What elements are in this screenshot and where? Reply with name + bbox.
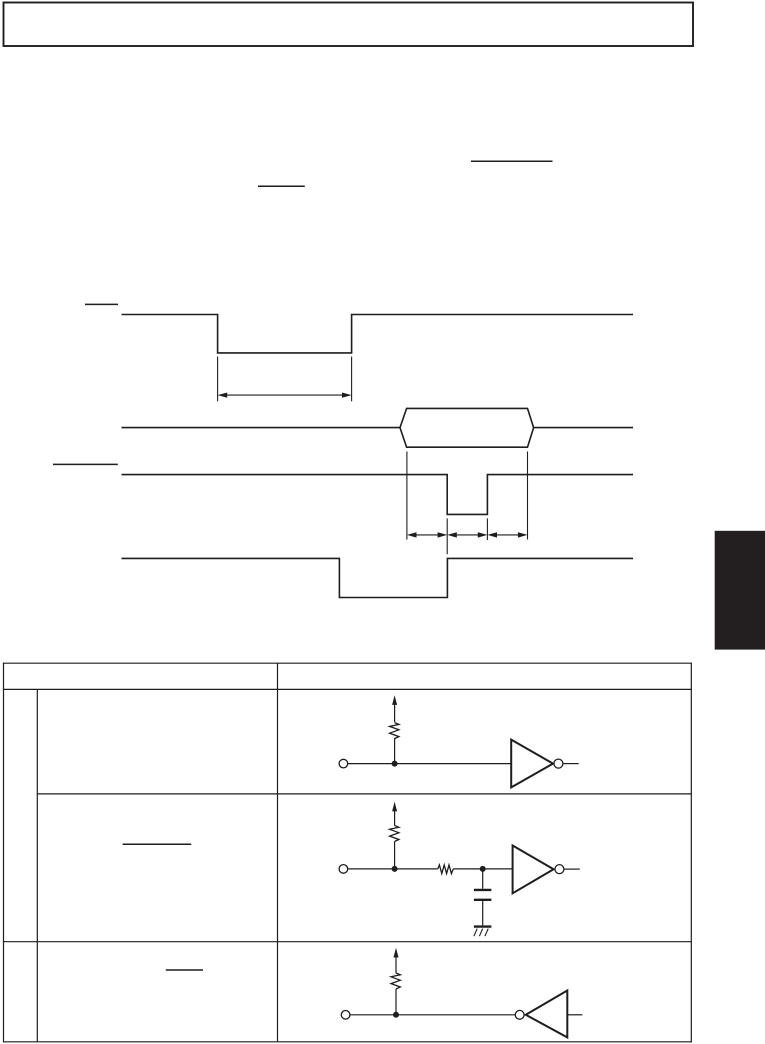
waveform 4 busy/ack pulse [122, 558, 634, 597]
power supply arrow row2 [392, 802, 397, 812]
wire capacitor to ground row2 [482, 901, 484, 925]
wire buffer output stub row1 [563, 763, 579, 765]
wire node2 to capacitor row2 [482, 869, 484, 889]
wire pad to inverter row3 [350, 1014, 515, 1016]
overline over signal name in body text (line 2) [258, 185, 305, 187]
dimension arrow hold time span [487, 532, 527, 537]
input buffer row2 [513, 846, 554, 894]
dimension extension line under hexagon right edge [527, 452, 529, 540]
wire series resistor to node2 row2 [453, 868, 512, 870]
table row separator 1 [37, 793, 692, 795]
table left border [3, 663, 5, 1043]
node junction pull-up row2 [392, 866, 398, 872]
table outer and grid lines [3, 663, 692, 1043]
wire resistor to supply row3 [395, 957, 397, 973]
power supply arrow row1 [392, 695, 397, 705]
wire buffer output stub row2 [564, 868, 580, 870]
data bus valid-data hexagon [400, 408, 534, 447]
buffer output bubble row1 [554, 759, 563, 768]
table bottom border [3, 1041, 692, 1043]
pull-up resistor row2 [390, 826, 399, 842]
inverter output bubble row3 [515, 1010, 524, 1019]
pull-up resistor row1 [390, 723, 399, 739]
capacitor C row2 [474, 890, 492, 900]
wire resistor to supply row1 [394, 705, 396, 723]
buffer output bubble row2 [555, 865, 564, 874]
pull-up resistor row3 [391, 973, 400, 989]
overline over output signal label row3 [166, 969, 203, 971]
dimension extension line right of pulse width [351, 357, 353, 402]
overline over schmitt input label row2 [123, 843, 192, 845]
dimension extension line under strobe rising edge [486, 518, 488, 540]
table right border [690, 663, 692, 1043]
wire input to buffer row1 [348, 763, 512, 765]
wire node to resistor row3 [395, 989, 397, 1015]
dimension extension line under strobe falling edge [446, 518, 448, 554]
overline over waveform 1 label (chip-enable signal) [85, 303, 118, 305]
waveform 3 strobe pulse [122, 475, 634, 515]
node junction row1 [392, 761, 398, 767]
dimension arrow setup time span [407, 532, 447, 537]
output pad terminal row3 [341, 1011, 350, 1020]
series resistor row2 [438, 865, 454, 874]
input pad terminal row2 [339, 865, 348, 874]
table row separator 2 [3, 941, 692, 943]
node junction row3 [393, 1012, 399, 1018]
ground [474, 927, 492, 937]
dimension extension line under hexagon left edge [406, 452, 408, 540]
output driver inverter row3 [526, 991, 568, 1038]
wire driver input stub row3 [567, 1014, 582, 1016]
table middle column line [277, 663, 279, 1042]
table header separator [3, 688, 692, 690]
wire into data bus [122, 427, 401, 429]
dimension extension line left of pulse width [217, 357, 219, 402]
wire node to resistor row2 [394, 842, 396, 869]
black chapter index tab [715, 531, 765, 650]
dimension arrow for pulse width [218, 393, 352, 398]
wire out of data bus [534, 427, 633, 429]
wire input to series resistor row2 [348, 868, 438, 870]
node junction capacitor row2 [480, 866, 486, 872]
wire resistor to supply row2 [394, 811, 396, 826]
waveform 1 chip-enable pulse [122, 315, 634, 353]
wire node to resistor row1 [394, 738, 396, 763]
power supply arrow row3 [394, 948, 399, 958]
overline over signal name in body text (line 1) [471, 160, 553, 162]
dimension arrow strobe low span [447, 532, 487, 537]
header title box [4, 3, 694, 47]
input pad terminal row1 [339, 759, 348, 768]
table inner-left column line [36, 689, 38, 1041]
table top border [3, 662, 692, 664]
input buffer row1 [511, 740, 553, 788]
overline over waveform 3 label (read/write strobe) [53, 463, 118, 465]
